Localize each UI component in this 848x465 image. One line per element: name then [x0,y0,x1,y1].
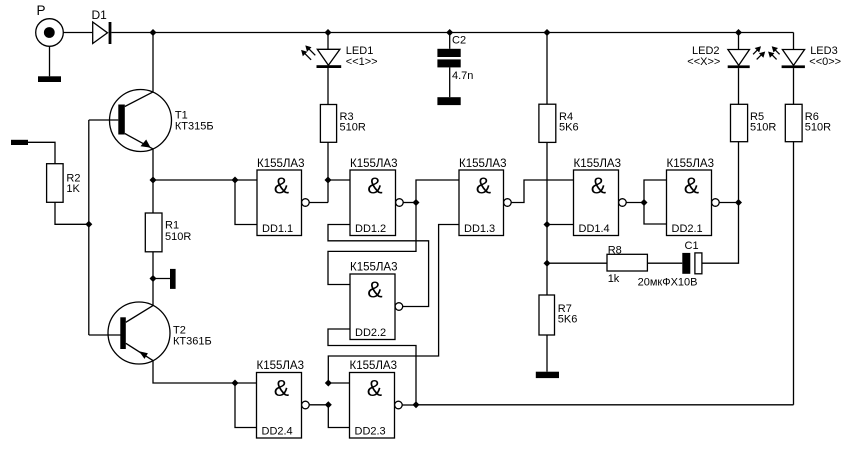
LED1 arrows [301,45,315,59]
node rail-T1 junction [150,29,157,36]
node rail-LED2 junction [735,29,742,36]
wire rail to R4 [546,33,548,105]
svg-text:P: P [37,3,46,18]
resistor R1 [145,213,162,252]
wire LED1 to R3 [327,68,329,105]
wire DD2.4 input loop [235,383,257,428]
svg-text:D1: D1 [92,8,108,22]
node DD1.1 input junction [232,177,239,184]
svg-text:510R: 510R [750,121,776,133]
wire C1 to DD2.1 out node [702,203,739,264]
wire DD2.1 output [719,202,738,204]
LED LED2 [728,50,750,69]
svg-text:DD2.2: DD2.2 [355,327,386,339]
resistor R2 [47,164,64,203]
resistor R8 [607,254,647,271]
wire T1 base [89,119,119,121]
gate DD1.2 [350,170,403,236]
wire DD1.2 output [403,202,416,204]
diode D1 [93,22,112,44]
node T1 emitter junction [150,177,157,184]
resistor R7 [539,295,555,335]
wire junction to terminal [153,278,170,280]
wire DD1.1 input loop [235,180,257,225]
wire R1 bottom [152,252,154,306]
wire LED3 to R6 [793,68,795,104]
wire DD1.3 output to DD1.4 in1 [511,180,573,203]
svg-text:510R: 510R [340,121,366,133]
wire node to DD1.2 in1 [328,179,350,181]
wire node to DD1.1 inputs [153,179,257,181]
wire top rail [112,32,794,34]
node rail-C2 junction [446,29,453,36]
node rail-LED1 junction [325,29,332,36]
svg-text:КТ315Б: КТ315Б [175,120,214,132]
wire DD1.4 out to DD2.1 in1 [644,180,667,203]
ground under P [38,76,61,82]
gate DD1.3 [459,170,511,236]
wire R2 to bus [55,202,89,224]
wire T1 emitter down [152,149,154,180]
wire left vertical bus T1 base to T2 base [88,120,90,335]
node R4-R8 junction [544,260,551,267]
svg-text:5K6: 5K6 [558,314,578,326]
wire DD1.2 out to DD2.2 in1 [328,203,416,285]
svg-text:<<0>>: <<0>> [809,56,841,68]
resistor R5 [731,104,748,141]
wire R3 to node [327,142,329,202]
svg-text:DD2.1: DD2.1 [672,223,703,235]
wire rail to LED1 [327,33,329,50]
svg-text:&: & [367,375,382,401]
wire DD2.3 out to DD2.2 in2 [328,329,416,405]
svg-text:<<X>>: <<X>> [687,56,720,68]
node DD2.4 out junction [325,401,332,408]
wire DD2.3 output [402,404,416,406]
svg-text:&: & [367,173,382,199]
gate DD2.1 [667,170,720,236]
wire R8 left lead [547,262,607,264]
svg-text:К155ЛА3: К155ЛА3 [257,360,305,372]
wire DD1.3 in2 to bottom [328,225,459,384]
svg-text:&: & [684,173,699,199]
terminal bar right [170,269,176,289]
wire T2 base [89,334,121,336]
svg-text:&: & [367,277,382,303]
wire P to ground [49,46,51,76]
wire LED2 to R5 [738,68,740,104]
capacitor C2 [437,33,460,98]
gate DD2.3 [350,373,403,439]
wire DD2.2 out to DD1.2 in2 [328,225,429,307]
svg-text:&: & [274,173,289,199]
svg-text:&: & [591,173,606,199]
svg-text:20мкФХ10В: 20мкФХ10В [638,276,698,288]
node R3-DD1.1out-DD1.2in [325,177,332,184]
svg-text:1k: 1k [608,273,620,285]
LED LED3 [782,33,805,69]
wire R5 to DD2.1 out [738,142,740,203]
probe connector P [36,19,64,47]
svg-text:510R: 510R [805,121,831,133]
node DD2.3 in1 junction [325,380,332,387]
gate DD2.4 [257,373,310,439]
svg-text:&: & [274,375,289,401]
wire P to D1 [63,32,92,34]
node DD1.2 out junction [413,199,420,206]
wire DD1.4 out to DD2.1 in2 [644,203,667,225]
wire DD1.1 output [309,202,328,204]
wire DD1.4 output [626,202,644,204]
LED LED1 [317,49,342,68]
svg-text:C2: C2 [452,34,466,46]
gate DD2.2 [350,274,403,340]
svg-text:510R: 510R [165,231,191,243]
svg-text:DD2.3: DD2.3 [355,425,386,437]
svg-text:R1: R1 [165,220,179,232]
transistor Q T1 [110,90,172,152]
wire rail to LED2 [738,33,740,50]
wire bottom rail to R6 [416,404,794,406]
svg-text:К155ЛА3: К155ЛА3 [350,360,398,372]
svg-text:К155ЛА3: К155ЛА3 [574,158,622,170]
svg-text:5K6: 5K6 [559,121,579,133]
wire DD2.4 out node to DD2.3 in2 [328,405,349,428]
svg-text:К155ЛА3: К155ЛА3 [350,158,398,170]
svg-text:4.7n: 4.7n [452,70,473,82]
wire R7 to ground [546,335,548,372]
ground under C2 [437,97,460,105]
node rail-R4 junction [544,29,551,36]
node DD2.4 input junction [232,380,239,387]
LED2 arrows [753,46,765,59]
svg-text:DD2.4: DD2.4 [262,425,293,437]
wire R4 to R7 [546,143,548,295]
wire DD2.4 out node to DD2.3 in1 [328,382,349,384]
node DD2.3 out junction [413,401,420,408]
svg-text:DD1.1: DD1.1 [262,223,293,235]
node R4-DD1.4 junction [544,221,551,228]
wire T2 emitter to DD2.4 [153,361,257,383]
svg-text:К155ЛА3: К155ЛА3 [257,158,305,170]
gate DD1.1 [257,170,309,236]
svg-text:К155ЛА3: К155ЛА3 [350,262,398,274]
resistor R6 [785,104,802,141]
node DD1.4 out junction [641,199,648,206]
gate DD1.4 [574,170,627,236]
svg-text:КТ361Б: КТ361Б [173,335,212,347]
wire DD2.4 output [309,404,328,406]
input terminal [11,140,28,145]
node DD2.1 out junction [735,199,742,206]
wire node to DD1.4 in2 [547,224,574,226]
svg-text:К155ЛА3: К155ЛА3 [667,158,715,170]
svg-text:<<1>>: <<1>> [346,56,378,68]
svg-text:DD1.2: DD1.2 [355,223,386,235]
svg-text:К155ЛА3: К155ЛА3 [459,158,507,170]
wire DD1.2 out to DD1.3 in1 [416,180,459,203]
svg-text:1K: 1K [66,183,80,195]
capacitor C1 [682,253,702,274]
wire R1 top [152,180,154,213]
svg-text:DD1.4: DD1.4 [579,223,610,235]
LED3 arrows [768,46,780,59]
svg-text:R8: R8 [608,245,622,257]
resistor R3 [320,105,336,143]
wire R8 to C1 [647,262,682,264]
ground under R7 [536,372,559,378]
node R1-T2 junction [150,275,157,282]
resistor R4 [539,104,556,142]
svg-text:DD1.3: DD1.3 [464,223,495,235]
wire terminal to R2 [28,142,55,163]
node R2 junction [85,221,92,228]
wire R6 down right side [793,142,795,405]
svg-text:&: & [476,173,491,199]
svg-text:C1: C1 [685,240,699,252]
transistor Q T2 [108,302,170,364]
wire rail to T1 collector [152,33,154,92]
